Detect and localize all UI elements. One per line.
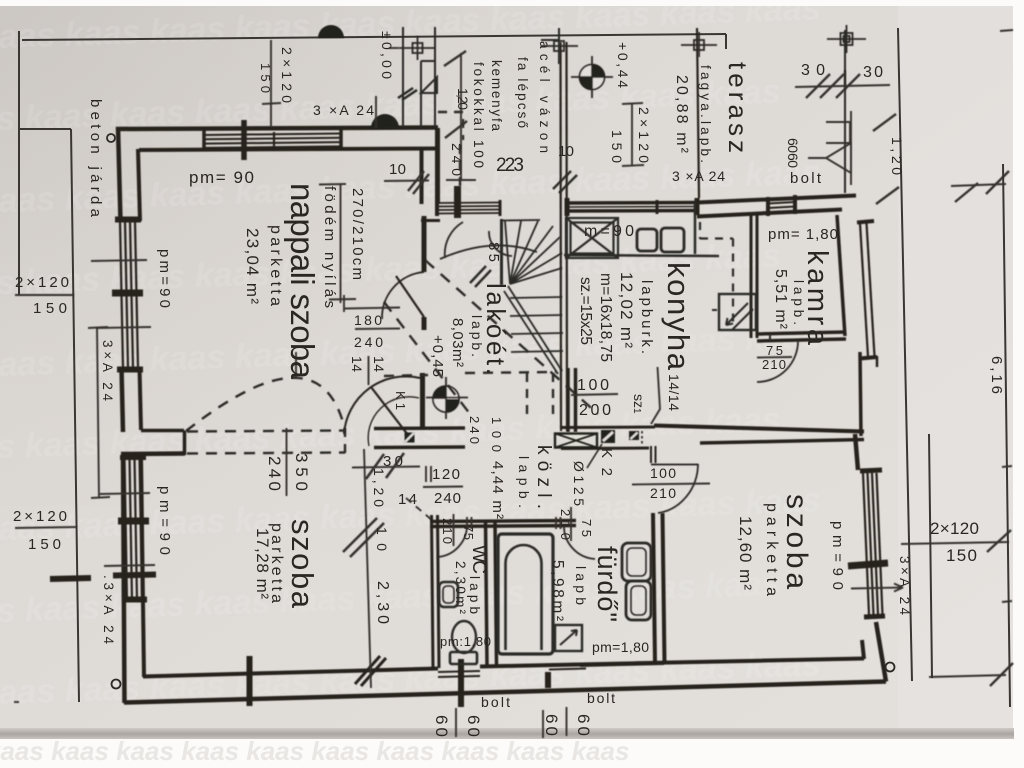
svg-text:lapburk.: lapburk.: [638, 280, 655, 354]
svg-text:beton járda: beton járda: [87, 99, 104, 218]
svg-text:223: 223: [496, 155, 524, 176]
svg-text:180: 180: [354, 312, 382, 328]
svg-text:m=16x18,75: m=16x18,75: [597, 273, 614, 362]
svg-text:pm:1,80: pm:1,80: [440, 634, 491, 649]
svg-text:2×120: 2×120: [13, 508, 67, 525]
svg-text:150: 150: [28, 536, 61, 553]
svg-text:3 ×A 24: 3 ×A 24: [672, 168, 725, 184]
svg-text:17,28 m²: 17,28 m²: [253, 528, 272, 599]
svg-text:12,60 m²: 12,60 m²: [736, 516, 755, 590]
svg-text:350: 350: [292, 453, 311, 491]
svg-text:150: 150: [946, 546, 977, 565]
svg-text:240: 240: [434, 490, 461, 507]
svg-text:6,16: 6,16: [988, 356, 1005, 394]
svg-text:sz.=15x25: sz.=15x25: [577, 277, 594, 345]
svg-text:14: 14: [371, 356, 387, 372]
svg-text:100: 100: [489, 417, 504, 452]
svg-text:bolt: bolt: [790, 170, 822, 187]
svg-text:210: 210: [440, 518, 455, 544]
svg-text:2×120: 2×120: [15, 274, 69, 291]
svg-text:10: 10: [389, 161, 406, 178]
svg-text:konyha: konyha: [661, 262, 696, 371]
svg-text:pm=1,80: pm=1,80: [592, 639, 649, 655]
svg-text:100: 100: [650, 465, 676, 481]
svg-text:1,20: 1,20: [455, 88, 471, 110]
svg-text:240: 240: [467, 416, 482, 444]
svg-text:m=90: m=90: [584, 223, 634, 240]
svg-text:210: 210: [762, 357, 786, 372]
svg-text:2×120: 2×120: [930, 519, 979, 538]
svg-text:fa lépcső: fa lépcső: [515, 57, 530, 128]
svg-text:75: 75: [461, 525, 476, 540]
svg-text:120: 120: [432, 466, 460, 483]
svg-text:±0,00: ±0,00: [379, 31, 395, 79]
svg-text:1,20: 1,20: [889, 137, 905, 175]
svg-text:2,30: 2,30: [374, 581, 391, 624]
svg-text:240: 240: [354, 334, 383, 350]
svg-text:1,20: 1,20: [371, 468, 387, 507]
svg-text:150: 150: [609, 130, 625, 163]
svg-text:4,44 m²: 4,44 m²: [489, 461, 506, 519]
svg-text:bolt: bolt: [481, 694, 510, 710]
svg-text:szoba: szoba: [780, 494, 813, 589]
svg-text:240: 240: [449, 143, 465, 176]
svg-text:5,51 m²: 5,51 m²: [772, 269, 789, 330]
svg-text:+0,44: +0,44: [615, 42, 631, 88]
svg-text:23,04 m²: 23,04 m²: [243, 228, 262, 304]
svg-text:lakóét.: lakóét.: [481, 283, 511, 375]
svg-text:240: 240: [265, 456, 284, 491]
svg-text:210: 210: [558, 509, 573, 540]
svg-text:14: 14: [349, 356, 365, 372]
svg-text:födém nyílás: födém nyílás: [321, 186, 338, 308]
svg-text:+0,45: +0,45: [429, 335, 446, 377]
svg-text:fürdő": fürdő": [592, 546, 622, 622]
svg-text:200: 200: [579, 402, 611, 419]
svg-text:kaas kaas kaas kaas kaas kaas: kaas kaas kaas kaas kaas kaas kaas kaas …: [0, 736, 629, 766]
svg-text:terasz: terasz: [723, 62, 753, 153]
svg-text:10: 10: [558, 143, 574, 160]
svg-text:150: 150: [33, 300, 67, 317]
svg-text:150: 150: [258, 63, 273, 93]
svg-text:kemenyfa: kemenyfa: [489, 60, 504, 131]
svg-text:60: 60: [785, 153, 801, 168]
svg-text:bolt: bolt: [587, 690, 615, 706]
svg-text:20,88 m²: 20,88 m²: [673, 75, 690, 154]
svg-text:szoba: szoba: [285, 519, 320, 609]
svg-text:14/14: 14/14: [666, 374, 682, 411]
svg-text:acél vázon: acél vázon: [537, 41, 552, 153]
svg-text:60: 60: [785, 138, 801, 153]
svg-text:100: 100: [577, 377, 609, 394]
svg-text:WC: WC: [468, 545, 489, 574]
svg-text:210: 210: [650, 485, 676, 501]
svg-text:8,03m²: 8,03m²: [449, 318, 466, 367]
svg-text:pm= 1,80: pm= 1,80: [768, 226, 838, 243]
svg-text:12,02 m²: 12,02 m²: [617, 272, 636, 348]
svg-text:nappali szoba: nappali szoba: [284, 183, 321, 380]
